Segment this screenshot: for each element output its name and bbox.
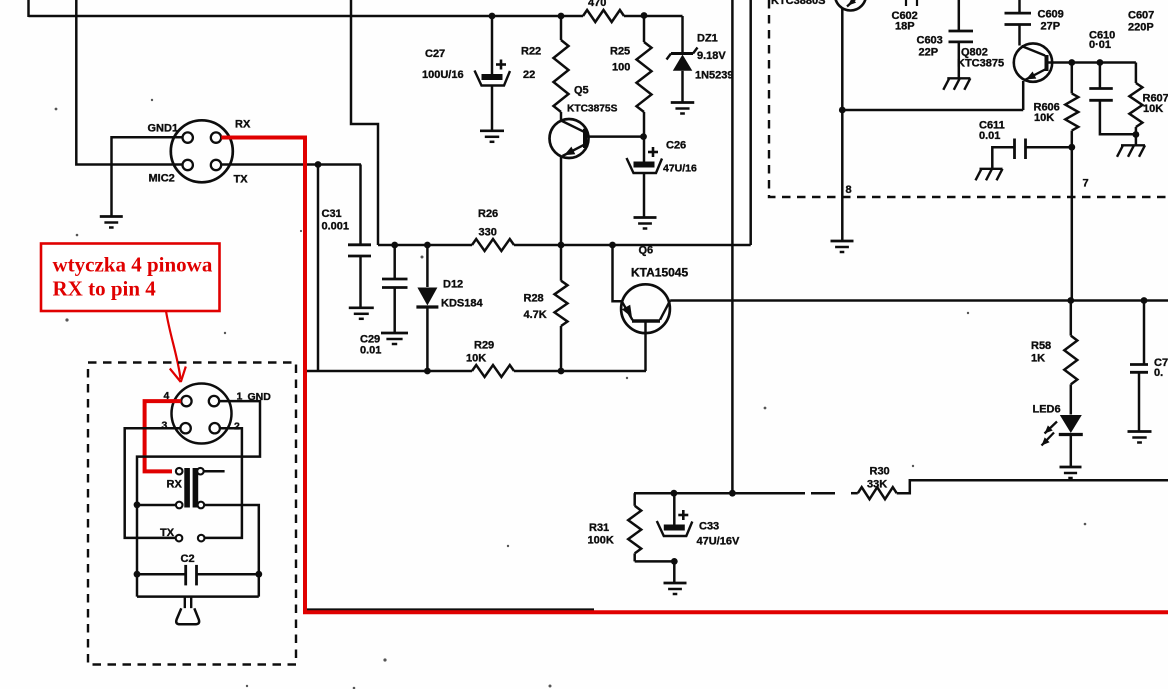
svg-text:1K: 1K — [1031, 353, 1045, 365]
wire R28 bottom lead — [560, 326, 563, 371]
svg-text:KTC3875: KTC3875 — [957, 58, 1004, 70]
capacitor C602 stubs (cut at top) — [905, 0, 907, 6]
junction dot R606 top — [1068, 59, 1075, 66]
plug pin 2 — [210, 423, 220, 433]
capacitor C611 plates — [1013, 139, 1016, 160]
wire R607 top lead — [1135, 63, 1138, 84]
chassis ground under R607 — [1121, 144, 1145, 146]
junction dot C7 top — [1141, 297, 1148, 304]
wire R25 bottom lead — [643, 112, 646, 137]
svg-text:DZ1: DZ1 — [697, 33, 718, 45]
resistor R31 leads+zigzag — [633, 493, 636, 506]
wire top-left vertical stub — [27, 0, 30, 17]
wire C603 bottom lead — [958, 42, 961, 78]
svg-text:C607: C607 — [1128, 10, 1154, 22]
wire C610 top lead — [1099, 63, 1102, 89]
wire plug-detail bottom rail — [137, 595, 259, 598]
transistor (top, cut) emitter diag — [847, 0, 858, 7]
wire C26 top lead — [643, 137, 646, 162]
transistor Q802 emitter arrow — [1026, 72, 1036, 80]
svg-text:18P: 18P — [895, 21, 915, 33]
svg-text:C2: C2 — [181, 553, 195, 565]
wire R58 to LED6 — [1070, 384, 1073, 414]
ground under C27 — [480, 129, 504, 132]
LED LED6 (points down) — [1060, 415, 1082, 433]
junction dot C29 top — [391, 242, 398, 249]
svg-text:47U/16: 47U/16 — [663, 163, 697, 175]
wire bottom horizontal (under red) — [305, 608, 594, 610]
capacitor C31 plates — [348, 243, 371, 246]
svg-text:TX: TX — [160, 527, 175, 539]
resistor R26 — [472, 239, 514, 251]
svg-text:2: 2 — [234, 421, 240, 433]
wire GND1 to ground — [112, 137, 183, 216]
wire RX bottom-right lead — [204, 505, 258, 597]
red arrow to connector detail — [166, 311, 181, 379]
connector J1 pin TX — [211, 160, 221, 170]
resistor R24 470 (top, label cut) — [583, 10, 624, 22]
svg-text:4.7K: 4.7K — [524, 309, 547, 321]
wire pin1 loop — [137, 401, 260, 505]
wire top supply rail y=16 — [29, 15, 584, 18]
svg-text:1N5239: 1N5239 — [695, 70, 734, 82]
ground under GND1 wire — [100, 215, 123, 218]
transistor Q802 body — [1014, 43, 1052, 81]
wire C26 bottom lead — [643, 173, 646, 218]
junction dot D12 bottom — [424, 368, 431, 375]
transistor Q802 emitter diag — [1025, 70, 1046, 81]
wire Q802 base rail y=62.5 — [1049, 61, 1136, 64]
svg-text:R31: R31 — [589, 522, 609, 534]
resistor R606 — [1065, 93, 1078, 130]
chassis ground under C611 — [980, 168, 1003, 170]
junction dot C27 top — [489, 13, 496, 20]
transistor Q6 body — [621, 284, 670, 333]
junction dot R607 bottom — [1133, 131, 1140, 138]
junction dot RX bottom node — [134, 501, 141, 508]
red annotation box — [41, 244, 220, 312]
capacitor C27 (electrolytic) — [496, 63, 506, 66]
wire C27 top lead — [491, 16, 494, 74]
wire Q5 base to node — [587, 135, 644, 138]
svg-text:KTC3880S: KTC3880S — [771, 0, 825, 7]
plug pin 4 — [181, 396, 191, 406]
svg-text:R25: R25 — [610, 46, 630, 58]
wire bottom rail y=371 — [306, 370, 472, 373]
capacitor C2 plates — [184, 565, 187, 586]
wire C7 top lead — [1143, 301, 1146, 365]
junction dot C33 bottom — [671, 558, 678, 565]
transistor Q6 base bar — [632, 319, 660, 323]
svg-text:10K: 10K — [466, 353, 486, 365]
junction dot pin8 node — [839, 107, 846, 114]
svg-text:C33: C33 — [699, 521, 719, 533]
svg-text:KDS184: KDS184 — [441, 298, 483, 310]
wire Q6 collector rail y=300.5 — [670, 299, 1168, 302]
capacitor C26 (electrolytic) — [648, 151, 658, 154]
transistor Q6 emitter diag — [622, 301, 633, 320]
wire R22 top lead — [560, 16, 563, 40]
svg-text:R26: R26 — [478, 208, 498, 220]
wire pin3 to TX terminal — [125, 428, 181, 538]
svg-text:0.001: 0.001 — [322, 221, 350, 233]
wire Q5 emitter down — [560, 157, 563, 246]
jack TX terminal right — [198, 535, 205, 542]
wire LED6 bottom lead — [1070, 435, 1073, 467]
svg-text:R28: R28 — [524, 293, 544, 305]
transistor Q5 emitter diag — [563, 145, 585, 156]
plug pin 1 — [209, 396, 219, 406]
LED LED6 emission arrows — [1045, 422, 1058, 434]
svg-text:C27: C27 — [425, 48, 445, 60]
zener DZ1 cathode bar — [671, 52, 693, 55]
junction dot Q5 emitter node — [558, 242, 565, 249]
svg-text:8: 8 — [846, 184, 852, 196]
wire C31 bottom lead — [359, 256, 362, 308]
wire pin8 vertical x=842 — [841, 8, 844, 240]
zener DZ1 triangle (points up) — [673, 55, 693, 71]
resistor R30 — [858, 487, 897, 499]
wire pin8 node to Q802 emitter — [842, 109, 1023, 112]
wire DZ1 top lead — [681, 16, 684, 53]
svg-text:27P: 27P — [1041, 21, 1061, 33]
wire C609 bottom lead — [1018, 25, 1021, 46]
resistor R28 — [555, 281, 568, 326]
transistor Q5 emitter arrow — [564, 147, 575, 156]
svg-text:R22: R22 — [521, 46, 541, 58]
svg-text:Q6: Q6 — [639, 245, 654, 257]
connector J1 body — [171, 120, 233, 182]
ground under LED6 — [1060, 466, 1082, 469]
svg-text:33K: 33K — [867, 479, 887, 491]
svg-text:KTA15045: KTA15045 — [631, 266, 688, 280]
svg-text:MIC2: MIC2 — [149, 173, 175, 185]
resistor R58 — [1064, 336, 1077, 385]
svg-text:C31: C31 — [322, 208, 342, 220]
wire top rail right of R24 — [624, 15, 683, 18]
svg-text:RX: RX — [235, 119, 251, 131]
wire C2 left lead — [137, 573, 186, 576]
scan speckles (noise) — [55, 108, 58, 111]
ground under C7 — [1128, 430, 1152, 433]
resistor R607 — [1129, 83, 1142, 127]
junction dot R606 bottom — [1068, 144, 1075, 151]
svg-text:KTC3875S: KTC3875S — [567, 104, 618, 115]
wire C2 right lead — [197, 573, 259, 576]
svg-text:D12: D12 — [443, 279, 463, 291]
connector J1 pin RX — [211, 132, 221, 142]
transistor Q6 collector diag — [660, 300, 670, 319]
svg-text:RX to pin 4: RX to pin 4 — [53, 277, 157, 301]
svg-text:330: 330 — [479, 227, 497, 239]
wire C609 top lead — [1018, 0, 1021, 13]
svg-text:470: 470 — [588, 0, 606, 9]
wire TX right — [221, 163, 361, 166]
wire R25 top lead — [643, 16, 646, 42]
jack RX terminal top-right — [197, 468, 204, 475]
svg-text:9.18V: 9.18V — [697, 50, 726, 62]
wire C610 bottom lead — [1100, 100, 1136, 134]
red RX wire — [221, 138, 1168, 613]
jack RX terminal top-left — [176, 468, 183, 475]
connector J1 pin MIC2 — [183, 160, 193, 170]
wire C31 top lead — [359, 165, 362, 245]
svg-text:100U/16: 100U/16 — [422, 69, 464, 81]
wire rail to R30 (broken scan) — [732, 492, 805, 495]
svg-text:0.: 0. — [1154, 367, 1163, 379]
wire R22 to Q5 — [560, 112, 563, 121]
wire R606 top lead — [1071, 63, 1074, 94]
wire MIC2 left — [76, 0, 182, 165]
wire D12 top lead — [426, 245, 429, 287]
transistor (top, cut) emitter arrow — [848, 0, 856, 6]
svg-text:Q5: Q5 — [574, 85, 589, 97]
wire long vertical x=732.4 — [731, 0, 734, 493]
wire DZ1 bottom lead — [681, 71, 684, 102]
svg-text:10K: 10K — [1143, 103, 1163, 115]
wire C603 top lead — [958, 0, 961, 31]
transistor Q5 body — [550, 119, 589, 158]
resistor R25 — [637, 42, 652, 112]
wire Q802 emitter down — [1022, 81, 1025, 110]
wire pin7 vertical — [1071, 147, 1074, 300]
svg-text:LED6: LED6 — [1033, 404, 1061, 416]
wire C611 right lead — [1026, 146, 1072, 149]
wire vertical x=351 from top — [351, 0, 378, 245]
svg-text:R30: R30 — [870, 466, 890, 478]
junction dot R28 bottom — [558, 368, 565, 375]
wire RX terminal stub right — [204, 470, 225, 473]
resistor R29 — [472, 365, 514, 377]
transistor Q802 base bar — [1045, 55, 1049, 71]
svg-text:R29: R29 — [474, 340, 494, 352]
ground under C26 — [634, 216, 657, 219]
svg-text:C603: C603 — [917, 35, 943, 47]
svg-text:wtyczka 4 pinowa: wtyczka 4 pinowa — [53, 253, 213, 277]
svg-text:100K: 100K — [588, 535, 614, 547]
plug stem — [184, 597, 186, 609]
resistor R22 — [554, 40, 569, 112]
connector J1 pin GND1 — [183, 132, 193, 142]
transistor Q6 emitter arrow (PNP) — [622, 305, 632, 318]
wire C29 bottom lead — [393, 288, 396, 333]
ground under C33 — [664, 582, 687, 585]
svg-text:22: 22 — [523, 69, 535, 81]
svg-text:220P: 220P — [1128, 22, 1154, 34]
capacitor C29 plates — [382, 278, 408, 281]
transistor Q802 collector diag — [1022, 46, 1046, 56]
jack RX terminal bottom-left — [176, 502, 183, 509]
wire C33 to ground — [673, 561, 676, 582]
dashed box (IC block) border — [769, 0, 1168, 197]
junction dot C610 top — [1097, 59, 1104, 66]
wire C7 bottom lead — [1138, 372, 1141, 431]
wire left vertical to C2 — [136, 505, 139, 597]
ground under C29 — [381, 332, 408, 335]
junction dot D12 top — [424, 242, 431, 249]
ground under C31 — [349, 306, 374, 309]
svg-text:3: 3 — [162, 420, 168, 432]
plug connector body — [172, 384, 232, 444]
wire TX-node vertical x=318 — [317, 165, 320, 372]
junction dot TX/C31 node — [315, 161, 322, 168]
svg-text:GND1: GND1 — [148, 123, 179, 135]
junction dot C33 top — [671, 490, 678, 497]
junction dot Q5 base node — [640, 133, 647, 140]
wire R607 bottom lead — [1135, 127, 1138, 145]
wire Q6 emitter lead — [613, 245, 623, 301]
junction dot x=732 rail node — [729, 490, 736, 497]
diode D12 (points down) — [417, 288, 437, 306]
svg-text:TX: TX — [234, 174, 249, 186]
svg-text:100: 100 — [612, 62, 630, 74]
wire C611 left lead — [992, 147, 1014, 168]
capacitor C7 plates — [1130, 363, 1148, 366]
svg-text:0·01: 0·01 — [1089, 39, 1111, 51]
wire R28 top lead — [560, 245, 563, 281]
wire R606 bottom lead — [1071, 131, 1074, 148]
junction dot C2 right — [255, 571, 262, 578]
red wire pin4 to RX terminal — [145, 401, 182, 471]
ground under pin8 wire — [831, 240, 854, 243]
capacitor C610 plates — [1089, 87, 1113, 90]
svg-text:0.01: 0.01 — [979, 130, 1000, 142]
wire vertical x=750.7 — [749, 0, 752, 245]
capacitor C609 plates — [1005, 12, 1032, 15]
wire D12 bottom lead — [426, 307, 429, 371]
svg-text:C609: C609 — [1038, 9, 1064, 21]
capacitor C603 plates — [949, 30, 974, 33]
transistor Q5 collector diag — [561, 121, 584, 132]
junction dot R22 top — [558, 13, 565, 20]
transistor (top, cut) body — [835, 0, 866, 11]
svg-text:22P: 22P — [919, 47, 939, 59]
junction dot R25 top — [641, 12, 648, 19]
wire C27 bottom lead — [491, 85, 494, 131]
junction dot Q6 emitter node — [609, 242, 616, 249]
plug body (bell) — [176, 608, 199, 624]
svg-text:C26: C26 — [666, 140, 686, 152]
wire RX bottom-left lead — [137, 504, 176, 507]
jack RX terminal bottom-right — [198, 502, 205, 509]
wire Q6 base down — [644, 321, 647, 371]
chassis ground under C603 — [947, 77, 970, 79]
plug pin 3 — [180, 423, 190, 433]
wire R31-C33 top rail — [634, 492, 732, 495]
wire R30 step to y=480 rail — [897, 480, 1168, 493]
wire pin2 to TX terminal — [205, 428, 242, 538]
junction dot R58 top — [1067, 297, 1074, 304]
svg-text:10K: 10K — [1034, 112, 1054, 124]
junction dot C2 left — [134, 571, 141, 578]
jack core bars — [184, 468, 190, 508]
svg-text:RX: RX — [167, 479, 183, 491]
svg-text:R58: R58 — [1031, 340, 1051, 352]
wire mid rail y=245 — [378, 244, 472, 247]
svg-text:0.01: 0.01 — [360, 345, 381, 357]
jack TX terminal left — [176, 535, 183, 542]
dashed box (plug detail) border — [88, 363, 296, 665]
wire C29 top lead — [393, 245, 396, 279]
svg-text:47U/16V: 47U/16V — [697, 536, 740, 548]
transistor Q5 base bar — [583, 129, 587, 148]
capacitor C33 (electrolytic) — [673, 493, 676, 524]
svg-text:7: 7 — [1083, 178, 1089, 190]
ground under DZ1 — [671, 101, 695, 104]
wire R58 top lead — [1070, 301, 1073, 336]
